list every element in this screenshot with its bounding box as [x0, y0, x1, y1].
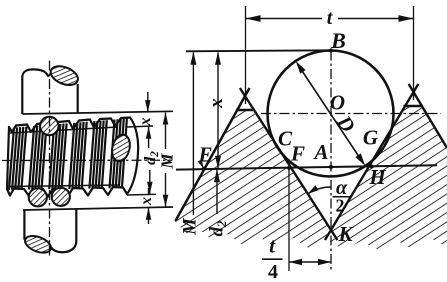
wire top level line — [186, 50, 331, 51]
anvil face line (top, M reference) — [22, 111, 173, 114]
point F — [287, 166, 291, 170]
left tooth left flank — [175, 88, 249, 221]
svg-text:A: A — [312, 140, 328, 164]
angle alpha/2 arc — [308, 187, 331, 194]
dimension M (right figure) — [192, 53, 194, 216]
svg-text:x: x — [206, 98, 227, 109]
measuring wire (bottom left) — [29, 188, 47, 206]
dimension t (pitch) — [245, 6, 247, 104]
point H — [369, 164, 373, 168]
horizontal centre line through O — [261, 113, 441, 115]
svg-text:O: O — [330, 91, 345, 115]
svg-text:M: M — [158, 153, 177, 170]
groove left flank (through C to K) — [240, 88, 338, 240]
pitch line (d2 level) — [176, 165, 437, 169]
dimension x (top, left figure) — [147, 92, 149, 112]
svg-text:H: H — [368, 165, 386, 189]
dimension x (bottom, left figure) — [148, 188, 150, 195]
right tooth crest — [404, 105, 424, 108]
point E — [202, 167, 206, 171]
thread root lines — [10, 127, 118, 133]
svg-text:K: K — [337, 222, 354, 246]
screw end section (hatched ellipse) — [109, 133, 132, 163]
svg-text:M: M — [181, 218, 201, 236]
measuring wire (top) — [40, 117, 58, 135]
right tooth right flank — [409, 84, 447, 148]
dimension d2 (left figure) — [149, 170, 151, 194]
top micrometer anvil — [22, 69, 77, 114]
vertical centre line through O,B,A,K — [330, 51, 332, 273]
wire diameter D arrow — [298, 64, 364, 164]
svg-text:x: x — [138, 197, 155, 206]
groove right flank (through G,H to K) — [325, 84, 418, 240]
svg-text:F: F — [290, 142, 305, 166]
point B — [329, 48, 333, 52]
svg-text:x: x — [137, 118, 154, 127]
tick line wire-top pitch level — [127, 126, 153, 127]
point A — [329, 165, 333, 169]
vertical centre line (anvils axis) — [49, 61, 51, 259]
dimension t/4 — [288, 169, 290, 272]
svg-text:G: G — [363, 126, 378, 150]
thread flank shading lines — [9, 119, 127, 190]
measuring wire (bottom right) — [52, 188, 70, 206]
dimension M (left figure) — [165, 113, 167, 150]
svg-text:4: 4 — [268, 261, 278, 282]
bottom micrometer anvil — [24, 210, 76, 253]
svg-text:E: E — [197, 143, 212, 167]
screw thread rod (left view) — [7, 118, 138, 197]
horizontal centre line (screw axis) — [2, 159, 172, 161]
left tooth crest — [236, 109, 253, 112]
svg-text:2: 2 — [336, 196, 345, 216]
tick line wire-bottom pitch level — [127, 193, 156, 196]
dimension d2 (right figure) — [216, 169, 218, 214]
measuring wire circle O — [268, 51, 394, 177]
thread section material (hatched) — [175, 106, 447, 250]
anvil face line (bottom, M reference) — [23, 207, 173, 210]
svg-text:B: B — [330, 28, 346, 53]
dimension x (right figure) — [217, 53, 219, 169]
